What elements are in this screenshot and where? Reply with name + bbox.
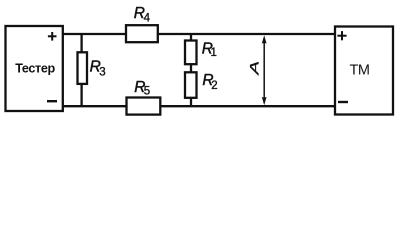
wire top (tester + to TM +): [62, 33, 336, 35]
dimension arrow A (double-headed): [262, 35, 267, 105]
svg-text:3: 3: [99, 67, 105, 79]
svg-text:5: 5: [144, 85, 150, 97]
svg-text:2: 2: [211, 80, 217, 92]
box U1 Тестер: [6, 26, 63, 111]
minus terminal of tester: [47, 100, 57, 102]
svg-text:4: 4: [144, 13, 151, 25]
resistor R2: [185, 72, 197, 98]
wire bottom (tester - to TM -): [62, 105, 336, 107]
plus terminal of tester: [48, 32, 57, 41]
resistor R3: [78, 52, 88, 84]
svg-text:ТМ: ТМ: [350, 63, 370, 79]
box U2 ТМ: [335, 27, 393, 115]
svg-text:1: 1: [211, 47, 217, 59]
svg-text:A: A: [248, 61, 262, 76]
wire R1-R2 branch vertical: [190, 33, 192, 107]
resistor R5: [127, 98, 161, 115]
plus terminal of TM: [337, 31, 346, 40]
resistor R1: [185, 41, 197, 65]
svg-text:Тестер: Тестер: [15, 62, 55, 76]
resistor R4: [126, 25, 158, 42]
wire R3 branch vertical: [80, 33, 82, 107]
minus terminal of TM: [338, 101, 348, 103]
